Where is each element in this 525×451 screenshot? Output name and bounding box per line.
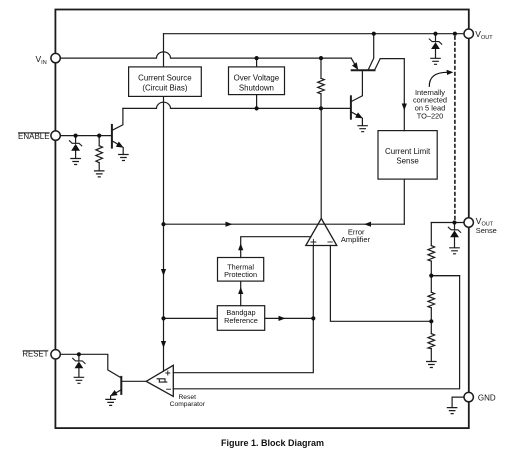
wire R3 to ground (430, 349, 432, 362)
wire bandgap input lead (164, 317, 218, 319)
arrow current limit sense input down (402, 104, 407, 111)
node OVP on VIN rail (255, 56, 259, 60)
error amp minus sign (328, 241, 332, 243)
node reference (bandgap output) (311, 316, 315, 320)
svg-text:Reference: Reference (224, 316, 258, 325)
node R enable on enable lead (97, 134, 101, 138)
terminal VOUT (464, 29, 473, 38)
wire VOUT sense line (431, 222, 464, 224)
op-amp U1 error amplifier (306, 218, 337, 245)
zener D1 enable lead (75, 136, 77, 144)
wire GND pin to ground (452, 397, 464, 407)
wire Q3 emitter to ground (122, 148, 124, 155)
comparator minus sign (167, 388, 171, 390)
transistor Q4 reset NPN base bar (120, 377, 122, 394)
wire bias resistor bottom lead (320, 94, 322, 109)
wire error amp output to driver base node (320, 108, 322, 218)
resistor R1 divider (428, 246, 435, 262)
wire thermal protection to error amp (241, 237, 311, 258)
node feedback divider tap lower (429, 319, 433, 323)
wire error amp minus lead (330, 246, 431, 322)
node D4 / dotted line on sense line (452, 220, 456, 224)
svg-text:(Circuit Bias): (Circuit Bias) (142, 84, 188, 93)
wire node A to R2 (430, 276, 432, 293)
resistor R bias (VIN to driver base) (318, 78, 325, 94)
zener D1 bar (69, 141, 81, 146)
transistor Q1 emitter from VIN (351, 58, 355, 65)
wire R2 to feedback node (430, 308, 432, 322)
transistor Q4 base from comparator (122, 380, 146, 382)
svg-text:GND: GND (478, 394, 496, 403)
arrow bias line right (226, 222, 233, 227)
zener D2 reset lead (78, 354, 80, 361)
svg-text:Current Source: Current Source (138, 73, 192, 82)
svg-text:TO–220: TO–220 (417, 112, 444, 121)
wire comparator plus input (173, 318, 313, 372)
zener D4 anode triangle (450, 230, 459, 237)
zener D1 anode triangle (71, 144, 80, 151)
resistor R2 divider (428, 292, 435, 308)
wire bandgap output (265, 317, 314, 319)
node Q1 collector on VOUT rail (372, 32, 376, 36)
box bandgap reference (217, 306, 264, 331)
svg-text:Figure 1. Block Diagram: Figure 1. Block Diagram (221, 438, 324, 448)
arrow Q3 emitter (116, 142, 124, 148)
node A divider tap upper (429, 274, 433, 278)
transistor Q4 emitter (116, 390, 121, 393)
wire comparator minus input from divider node A (173, 276, 459, 389)
transistor Q2 driver NPN base bar (350, 96, 352, 118)
wire RESET lead (60, 354, 121, 377)
resistor R enable (96, 146, 103, 163)
ground Q2 emitter (357, 126, 368, 132)
svg-text:Amplifier: Amplifier (341, 235, 371, 244)
wire R1 to node A (430, 261, 432, 276)
ground D4 (449, 248, 460, 254)
svg-text:Comparator: Comparator (170, 401, 206, 408)
terminal RESET (51, 350, 60, 359)
transistor Q3 emitter (112, 141, 118, 145)
dotted line internal connection (454, 37, 456, 221)
wire D4 anode to ground (454, 237, 456, 247)
wire VOUT rail (node VOUT) (164, 33, 465, 35)
transistor Q1 collector 1 to VOUT (368, 34, 374, 71)
ground R enable (94, 171, 105, 177)
arrow bandgap to thermal up (238, 287, 243, 294)
terminal circles (51, 29, 474, 402)
transistor Q3 collector (112, 108, 123, 130)
box current limit sense (378, 131, 437, 180)
box over voltage shutdown (229, 67, 285, 95)
error amp plus sign (311, 240, 316, 245)
ground Q3 emitter (118, 155, 129, 161)
wire over voltage shutdown bottom lead (256, 95, 258, 109)
wire center vertical (current source bias) (163, 96, 165, 372)
wire divider top lead (430, 223, 432, 246)
arrowheads (71, 42, 459, 396)
wire error amplifier bias line (164, 223, 405, 225)
ground D1 (70, 159, 81, 165)
transistor Q2 emitter (351, 112, 357, 115)
wire bias resistor top lead (320, 58, 322, 78)
wire VIN rail with hop over center vertical (60, 52, 351, 58)
annotation curved arrow (429, 72, 447, 87)
ground D2 (74, 377, 85, 383)
ground D3 (430, 58, 441, 64)
arrow Q4 emitter (110, 390, 118, 396)
ground GND pin (447, 408, 458, 414)
hysteresis symbol (157, 379, 167, 382)
transistor Q2 collector to Q1 base (351, 70, 362, 101)
svg-text:ENABLE: ENABLE (18, 132, 50, 141)
op-amp U2 reset comparator (146, 365, 173, 396)
zener D2 anode triangle (75, 362, 84, 369)
svg-text:Current Limit: Current Limit (385, 147, 431, 156)
arrow thermal to error amp up (238, 243, 243, 250)
transistor Q1 pass PNP base bar (352, 69, 375, 71)
wire current source top lead (163, 34, 165, 67)
node D3 on VOUT rail (433, 32, 437, 36)
comparator plus sign (166, 371, 170, 375)
arrow Q2 emitter (355, 112, 363, 118)
node dotted line on VOUT rail (453, 32, 457, 36)
zener D3 bar (429, 39, 441, 44)
wire current limit sense output (403, 179, 405, 224)
box thermal protection (218, 258, 264, 282)
arrow current limit line left (364, 222, 371, 227)
ground Q4 emitter (105, 399, 116, 405)
zener D2 bar (73, 358, 85, 363)
svg-text:Sense: Sense (476, 226, 497, 235)
wire base drive line with hop over center vertical (123, 102, 351, 108)
wire node A to comparator branch (431, 275, 459, 277)
terminal VOUT sense (464, 218, 473, 227)
wire D3 anode to ground (435, 49, 437, 58)
arrow center vertical down 1 (161, 269, 166, 276)
terminal ENABLE (51, 131, 60, 140)
resistor R enable bottom lead (98, 163, 100, 171)
svg-text:Protection: Protection (224, 270, 257, 279)
wire D2 anode to ground (78, 368, 80, 377)
ground divider R3 (426, 362, 437, 368)
resistor R3 divider (428, 334, 435, 349)
wire Q2 emitter to ground (361, 118, 363, 125)
wire D1 anode to ground (75, 151, 77, 159)
svg-text:Reset: Reset (178, 394, 196, 401)
node D1 on enable lead (74, 134, 78, 138)
node OVP on base line (255, 106, 259, 110)
wire Q4 emitter to ground (110, 396, 112, 399)
wire bandgap to thermal protection (240, 281, 242, 306)
terminal GND (464, 392, 473, 401)
zener D4 sense clamp lead (454, 223, 456, 230)
package outline border (55, 10, 468, 429)
arrow center vertical down 2 (161, 341, 166, 348)
wire over voltage shutdown top lead (256, 58, 258, 67)
node bias tap on center vertical (161, 222, 165, 226)
resistor R enable top lead (98, 136, 100, 146)
transistor Q3 enable NPN base bar (111, 125, 113, 148)
box current source (circuit bias) (129, 67, 202, 97)
wire feedback node to R3 (430, 321, 432, 333)
svg-text:Sense: Sense (396, 156, 419, 165)
ground symbols (70, 58, 460, 413)
wire ENABLE lead (60, 135, 111, 137)
node R bias / error amp on base line (319, 106, 323, 110)
zener D3 VOUT clamp lead (435, 34, 437, 42)
svg-text:Over Voltage: Over Voltage (234, 73, 280, 82)
arrow bandgap output right (279, 316, 286, 321)
node R bias on VIN rail (319, 56, 323, 60)
node D2 on reset lead (77, 352, 81, 356)
zener D4 bar (448, 227, 460, 232)
svg-text:Shutdown: Shutdown (239, 84, 274, 93)
arrow Q1 emitter (352, 62, 358, 70)
terminal VIN (51, 53, 60, 62)
zener D3 anode triangle (431, 42, 440, 49)
transistor Q1 collector 2 (sense) (375, 59, 405, 131)
wire error amp plus lead (312, 246, 314, 319)
node bandgap tap on center vertical (161, 316, 165, 320)
